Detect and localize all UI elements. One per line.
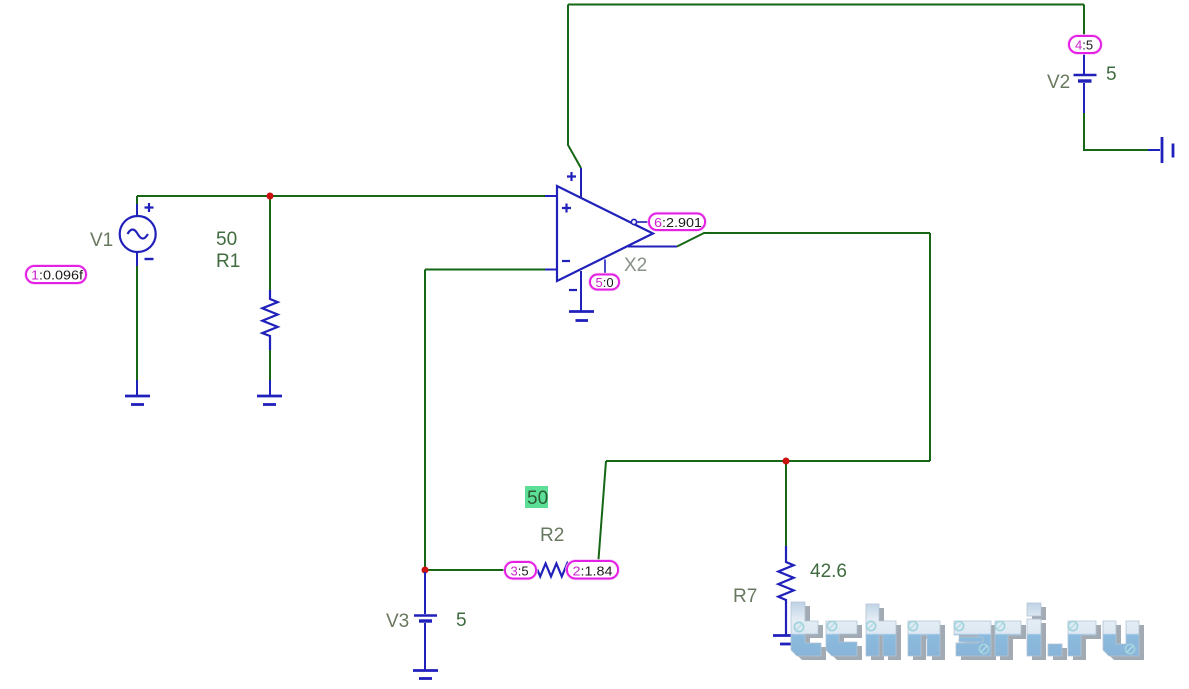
op-amp -supply pin [580,271,582,311]
wire V1 bottom vertical [136,266,138,380]
wire top net left vertical [568,5,581,169]
wire inverting input horizontal [425,269,546,271]
V2 ground sideways [1148,149,1160,151]
svg-text:R7: R7 [733,586,757,607]
label 3:5 [505,562,536,579]
battery V3 [424,572,426,614]
watermark screws [794,621,1134,653]
svg-text:2:1.84: 2:1.84 [573,564,613,579]
svg-text:1:0.096f: 1:0.096f [31,268,83,283]
V3 ground [413,669,438,672]
V1 ground [136,380,138,395]
V1 plus marker [145,203,154,212]
op-amp plus marker inner [562,204,571,213]
wire R1 bottom [269,350,271,380]
R1 ground [269,380,271,395]
svg-text:42.6: 42.6 [810,561,847,582]
svg-text:R2: R2 [540,525,564,546]
label 1:0.096f [26,266,86,283]
wire V2 top vertical [1083,5,1085,37]
label 5:0 [590,275,619,290]
R7 ground [773,634,798,637]
op-amp +supply pin [580,168,582,198]
watermark tehnari.ru [791,602,1139,656]
op-amp output pin [628,246,677,248]
wire R7 branch [785,461,787,546]
svg-text:R1: R1 [216,251,240,272]
V1 pins [136,204,138,266]
watermark tehnari.ru shadow [796,606,1144,660]
svg-text:V1: V1 [90,230,113,251]
svg-text:V2: V2 [1047,72,1070,93]
op-amp plus marker supply [567,172,576,181]
label 5 anchor [604,260,606,276]
highlighted value 50 [525,486,548,508]
svg-text:V3: V3 [386,611,409,632]
label 2:1.84 [567,561,618,579]
wire inverting vertical [424,270,426,571]
label 6 anchor [631,219,636,224]
junction node R2 [422,567,429,574]
op-amp input pin stubs [545,196,557,270]
wire V1 top stub [136,196,138,204]
label 4:5 [1069,36,1101,53]
svg-text:50: 50 [216,229,237,250]
svg-text:6:2.901: 6:2.901 [654,215,702,230]
source V1 [120,216,156,252]
wire R1 branch top [269,196,271,290]
op-amp minus marker supply [569,289,577,291]
svg-text:5: 5 [456,610,467,631]
wire V2 bottom [1084,113,1148,150]
op-amp minus marker inner [562,260,570,262]
svg-text:5: 5 [1106,64,1117,85]
wire output net [677,233,930,247]
op-amp X2 triangle [557,186,653,281]
svg-text:3:5: 3:5 [511,564,529,579]
battery V2 [1083,53,1085,74]
wire main input horizontal [137,195,546,197]
junction node input [267,193,274,200]
wire junction to R2 [425,569,536,571]
svg-text:4:5: 4:5 [1075,38,1093,53]
svg-text:50: 50 [527,488,548,509]
V1 sine [128,230,148,239]
wire right vertical x930 [929,233,931,461]
V1 minus marker [145,258,154,260]
resistor R1 [262,290,277,350]
wire R2 right diagonal [598,461,606,566]
op-amp ground [569,310,594,313]
wire top net horizontal [568,4,1084,6]
svg-text:5:0: 5:0 [596,275,614,290]
junction node R7 [783,458,790,465]
wire feedback horizontal y461 [606,460,930,462]
label 6:2.901 [649,214,705,231]
resistor R2 [534,564,600,577]
resistor R7 [778,546,793,635]
svg-text:X2: X2 [624,255,647,276]
